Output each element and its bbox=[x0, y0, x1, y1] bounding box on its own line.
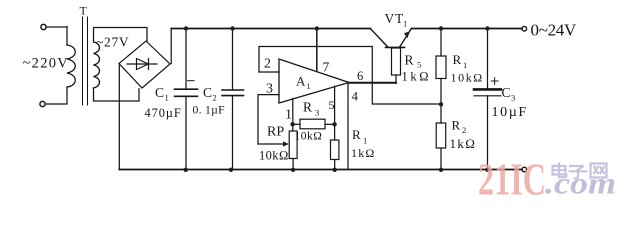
junction C3 output rail bbox=[485, 26, 489, 30]
svg-text:C: C bbox=[203, 85, 212, 100]
capacitor C2 bbox=[222, 29, 244, 170]
junction C3 ground rail bbox=[485, 168, 489, 172]
wire RP bottom bbox=[292, 159, 294, 170]
junction C1 top rail bbox=[184, 26, 188, 30]
resistor R5 body bbox=[392, 48, 401, 75]
svg-text:21IC: 21IC bbox=[478, 154, 546, 205]
capacitor C3 electrolytic bbox=[474, 29, 501, 170]
svg-text:4: 4 bbox=[352, 89, 359, 104]
junction C2 top rail bbox=[230, 26, 234, 30]
svg-text:2: 2 bbox=[264, 57, 271, 72]
terminal output + bbox=[522, 26, 527, 31]
svg-text:10kΩ: 10kΩ bbox=[295, 131, 323, 143]
junction R1 output rail bbox=[439, 26, 443, 30]
svg-text:2: 2 bbox=[213, 93, 217, 103]
svg-text:T: T bbox=[80, 4, 88, 18]
wire pin3 stub bbox=[258, 95, 279, 144]
watermark bbox=[478, 154, 616, 205]
wire secondary top bbox=[94, 28, 148, 43]
svg-text:RP: RP bbox=[267, 125, 284, 140]
junction pin1 node bbox=[290, 122, 294, 126]
wire pin1 bbox=[292, 99, 294, 132]
emitter output rail bbox=[412, 28, 523, 30]
transformer core bbox=[83, 17, 88, 105]
wire RP wiper bbox=[258, 143, 284, 145]
wire secondary bottom bbox=[94, 88, 140, 101]
capacitor C1 bbox=[175, 29, 198, 170]
svg-text:0. 1µF: 0. 1µF bbox=[193, 104, 226, 117]
wire bridge + output riser bbox=[170, 29, 172, 64]
svg-text:1kΩ: 1kΩ bbox=[450, 136, 477, 151]
svg-text:3: 3 bbox=[315, 108, 319, 118]
svg-text:1: 1 bbox=[285, 108, 292, 123]
potentiometer RP body bbox=[289, 131, 297, 159]
transistor VT1 bbox=[371, 28, 412, 47]
wire bbox=[46, 26, 67, 45]
RP wiper arrowhead bbox=[283, 141, 289, 146]
svg-text:3: 3 bbox=[266, 82, 273, 97]
junction RP ground rail bbox=[291, 168, 295, 172]
op-amp A1 bbox=[279, 59, 349, 103]
wire R4 bottom bbox=[334, 160, 336, 170]
svg-text:1: 1 bbox=[403, 19, 407, 29]
diode inside bridge bbox=[127, 59, 157, 70]
wire pin1 node to R3 bbox=[293, 123, 300, 125]
resistor R1 bbox=[436, 29, 446, 105]
svg-text:10µF: 10µF bbox=[492, 105, 528, 120]
svg-text:3: 3 bbox=[511, 93, 515, 103]
svg-text:10kΩ: 10kΩ bbox=[259, 149, 289, 163]
svg-text:R: R bbox=[452, 118, 461, 133]
svg-text:7: 7 bbox=[323, 60, 330, 75]
wire R3 to pin5 line bbox=[325, 123, 335, 125]
resistor R2 bbox=[436, 104, 446, 169]
svg-text:470µF: 470µF bbox=[145, 106, 182, 120]
wire pin2 stub bbox=[259, 71, 279, 73]
svg-text:C: C bbox=[502, 85, 511, 100]
svg-text:~220V: ~220V bbox=[23, 56, 70, 72]
resistor R3 body bbox=[300, 119, 325, 129]
wire bbox=[45, 87, 67, 104]
svg-text:2: 2 bbox=[462, 125, 466, 135]
svg-text:6: 6 bbox=[357, 69, 363, 83]
bridge rectifier bbox=[119, 41, 170, 88]
top supply rail bbox=[171, 28, 370, 30]
junction R2 ground rail bbox=[439, 168, 443, 172]
wire pin6 output bbox=[349, 82, 396, 84]
terminal AC input bottom bbox=[40, 101, 45, 106]
wire pin4 to ground rail bbox=[347, 84, 349, 170]
svg-text:R: R bbox=[352, 127, 361, 142]
junction R4 ground rail bbox=[333, 168, 337, 172]
wire feedback loop to pin 2 bbox=[259, 47, 441, 105]
terminal AC input top bbox=[41, 24, 46, 29]
wire pin7 bbox=[316, 29, 318, 71]
transformer T secondary winding bbox=[94, 42, 100, 88]
svg-text:10kΩ: 10kΩ bbox=[451, 71, 484, 85]
svg-text:5: 5 bbox=[417, 60, 421, 70]
wire R5 bottom bbox=[395, 75, 397, 83]
svg-text:C: C bbox=[155, 85, 164, 100]
svg-text:0~24V: 0~24V bbox=[531, 21, 577, 40]
svg-text:5: 5 bbox=[329, 98, 335, 112]
svg-text:1: 1 bbox=[363, 136, 367, 146]
junction R3 pin5 node bbox=[332, 122, 336, 126]
svg-text:1: 1 bbox=[463, 60, 467, 70]
transformer T primary winding bbox=[67, 45, 75, 87]
junction C1 ground rail bbox=[184, 168, 188, 172]
junction C2 ground rail bbox=[229, 168, 233, 172]
resistor R4 body bbox=[331, 140, 339, 160]
svg-text:R: R bbox=[453, 52, 462, 67]
svg-text:VT: VT bbox=[385, 11, 405, 26]
terminal output bottom bbox=[522, 167, 527, 172]
svg-text:~27V: ~27V bbox=[96, 35, 129, 50]
svg-text:1kΩ: 1kΩ bbox=[351, 146, 376, 160]
svg-text:R: R bbox=[303, 100, 312, 115]
wire bridge - output drop bbox=[118, 64, 120, 170]
wire pin5 bbox=[334, 86, 336, 140]
svg-text:A: A bbox=[296, 74, 306, 89]
bottom ground rail bbox=[119, 169, 522, 171]
junction feedback divider node bbox=[439, 102, 443, 106]
svg-text:R: R bbox=[405, 53, 414, 68]
junction pin7 top rail bbox=[315, 26, 319, 30]
svg-text:1: 1 bbox=[307, 82, 311, 91]
svg-text:1: 1 bbox=[165, 93, 169, 103]
svg-text:1kΩ: 1kΩ bbox=[402, 70, 432, 84]
